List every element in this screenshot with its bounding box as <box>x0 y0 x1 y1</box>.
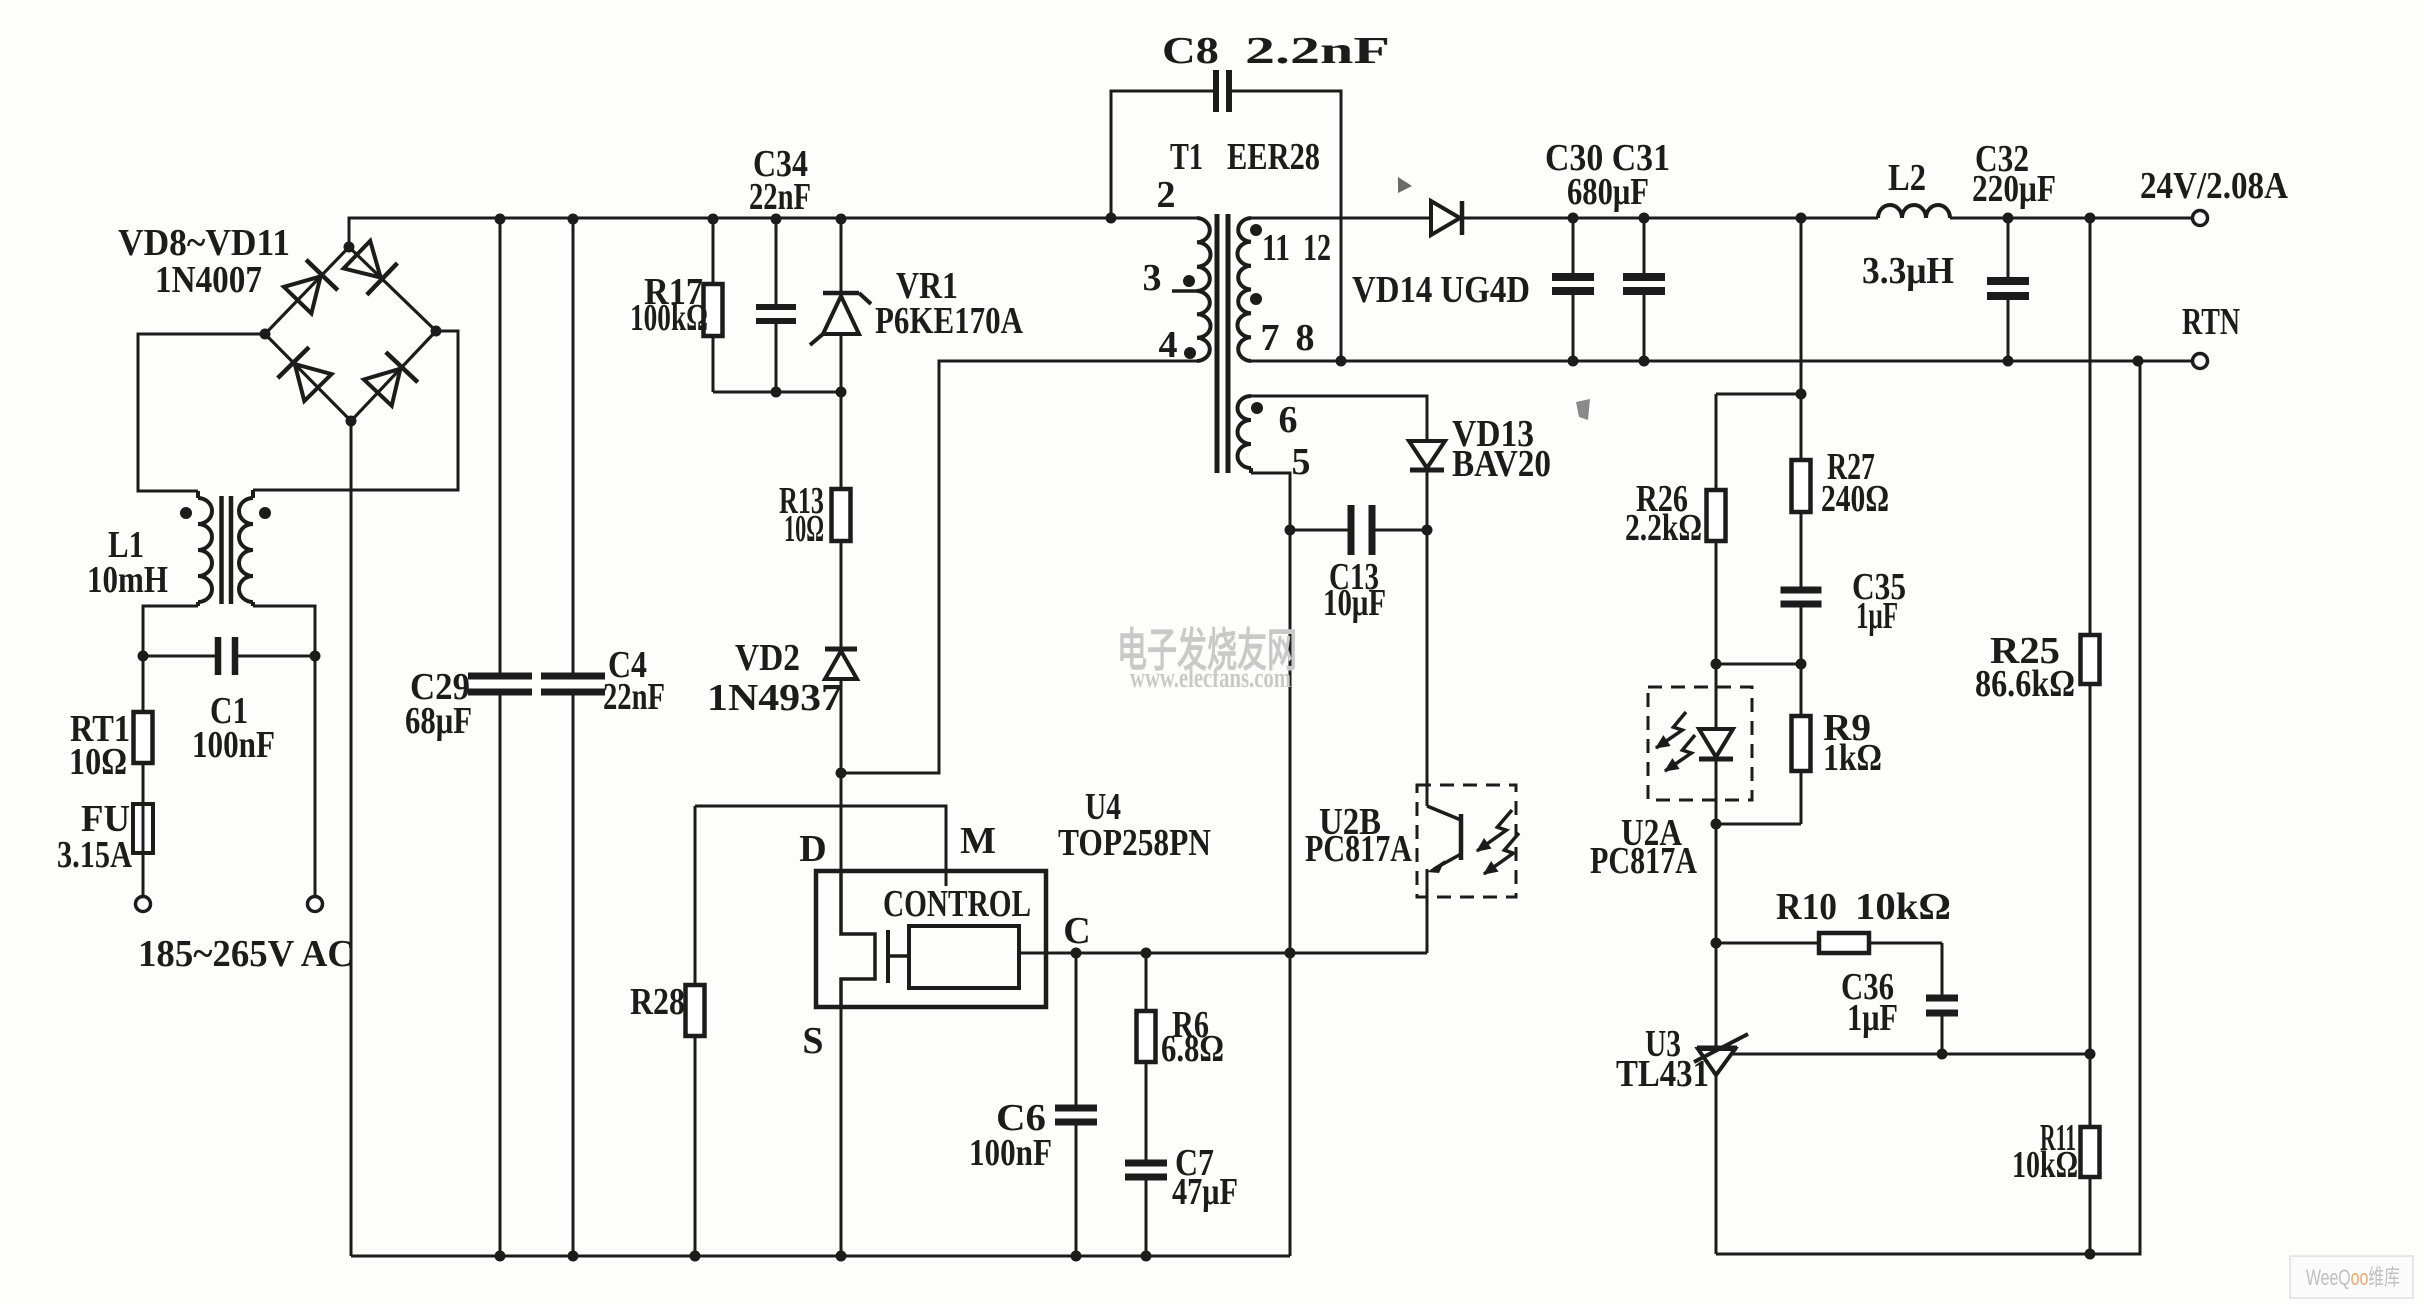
capacitor C30 680μF <box>1572 218 1575 277</box>
resistor RT1 10Ω (NTC) <box>134 712 153 763</box>
wire clamp bottom bar <box>713 391 841 394</box>
wire VR1 to R13 <box>840 392 843 489</box>
svg-text:68μF: 68μF <box>405 700 472 742</box>
wire U2B emitter to C line <box>1426 869 1429 953</box>
wire R13 to VD2 <box>840 541 843 649</box>
wire LED cathode to R10 node <box>1715 824 1718 943</box>
wire secondary rail segments <box>1251 217 1431 220</box>
wire T1 pin 4 to drain node <box>841 361 1197 773</box>
wire R26/R27 bottom link <box>1716 663 1801 666</box>
capacitor C35 1μF <box>1781 587 1822 594</box>
svg-text:185~265V AC: 185~265V AC <box>138 933 354 975</box>
svg-text:BAV20: BAV20 <box>1452 443 1551 485</box>
node R11 bottom <box>2085 1249 2096 1260</box>
node C30 bottom <box>1568 356 1579 367</box>
resistor R28 <box>686 985 705 1036</box>
wire FU to AC terminal <box>142 853 145 897</box>
svg-text:TL431: TL431 <box>1616 1053 1709 1095</box>
terminal RTN <box>2193 354 2208 369</box>
node VR1 bottom <box>836 387 847 398</box>
wire secondary ground rail <box>1716 361 2140 1254</box>
node AC terminal N <box>308 897 323 912</box>
wire RT1 to FU <box>142 763 145 804</box>
node R26/R27 top junction <box>1796 389 1807 400</box>
node bridge bottom vertex <box>346 416 357 427</box>
fuse FU 3.15A <box>133 804 153 853</box>
node R6 top <box>1141 948 1152 959</box>
svg-text:24V/2.08A: 24V/2.08A <box>2140 165 2288 207</box>
svg-text:S: S <box>802 1020 823 1062</box>
capacitor C34 22nF <box>756 304 796 310</box>
svg-text:11: 11 <box>1262 227 1290 269</box>
wire C8 branch <box>1111 91 1216 218</box>
resistor R25 86.6kΩ <box>2081 635 2100 684</box>
wire C4 column <box>572 219 575 676</box>
svg-text:680μF: 680μF <box>1567 171 1649 213</box>
wire R11 column <box>2089 1054 2092 1127</box>
optocoupler U2B PC817A (phototransistor) <box>1417 785 1516 897</box>
node C6 bottom <box>1071 1251 1082 1262</box>
svg-text:1N4937: 1N4937 <box>707 677 842 719</box>
svg-text:VD2: VD2 <box>735 637 800 679</box>
resistor R17 100kΩ <box>704 284 723 336</box>
resistor R6 6.8Ω <box>1137 1011 1156 1062</box>
node C4 bottom <box>568 1251 579 1262</box>
svg-text:3: 3 <box>1143 257 1162 299</box>
node LED top <box>1711 659 1722 670</box>
wire R26 column <box>1715 394 1718 490</box>
capacitor C4 22nF <box>541 673 605 680</box>
node bridge top vertex <box>344 242 355 253</box>
shunt regulator U3 TL431 <box>1715 943 1718 1048</box>
node RTN right junction <box>2133 356 2144 367</box>
transformer T1 primary winding (pins 2,3,4) <box>1197 218 1211 291</box>
svg-text:10Ω: 10Ω <box>69 741 127 783</box>
resistor R13 10Ω <box>832 489 851 541</box>
wire R26 top link <box>1716 393 1801 396</box>
svg-text:L2: L2 <box>1888 157 1926 199</box>
svg-text:6.8Ω: 6.8Ω <box>1161 1028 1224 1070</box>
node VR1 top <box>836 214 847 225</box>
node R28 bottom <box>690 1251 701 1262</box>
svg-text:2.2kΩ: 2.2kΩ <box>1625 507 1702 549</box>
svg-text:2: 2 <box>1157 174 1176 216</box>
capacitor C36 1μF <box>1926 995 1958 1002</box>
node C29 bottom <box>495 1251 506 1262</box>
node C4 top <box>568 214 579 225</box>
wire C34 column <box>775 219 778 307</box>
svg-text:3.3μH: 3.3μH <box>1862 250 1954 292</box>
capacitor C29 68μF <box>468 673 532 680</box>
wire bridge left AC input to L1 left winding <box>138 334 265 491</box>
wire L1 left winding to C1 left node <box>143 606 198 656</box>
svg-text:240Ω: 240Ω <box>1821 478 1889 520</box>
svg-text:RTN: RTN <box>2182 301 2240 343</box>
svg-text:EER28: EER28 <box>1227 136 1320 178</box>
svg-text:C8: C8 <box>1162 30 1219 72</box>
svg-text:1μF: 1μF <box>1856 595 1898 637</box>
svg-text:TOP258PN: TOP258PN <box>1058 822 1211 864</box>
resistor R27 240Ω <box>1792 460 1811 512</box>
svg-text:VD8~VD11: VD8~VD11 <box>118 222 290 264</box>
capacitor C8 2.2nF <box>1213 70 1219 112</box>
svg-text:10mH: 10mH <box>87 559 168 601</box>
svg-text:1μF: 1μF <box>1847 997 1898 1039</box>
node S bottom <box>836 1251 847 1262</box>
node LED cathode junction <box>1711 819 1722 830</box>
wire R28 to U4 M pin <box>695 806 946 886</box>
wire C36 column <box>1941 943 1944 998</box>
node C32 top <box>2003 213 2014 224</box>
wire U4 S pin to ground rail <box>840 1007 843 1256</box>
svg-text:PC817A: PC817A <box>1305 828 1412 870</box>
node bridge left vertex <box>260 329 271 340</box>
node C6 top <box>1071 948 1082 959</box>
capacitor C32 220μF <box>2007 218 2010 281</box>
svg-text:6: 6 <box>1279 399 1298 441</box>
watermark weeqoo <box>2290 1256 2413 1298</box>
svg-text:47μF: 47μF <box>1172 1171 1238 1213</box>
wire R9 bottom link <box>1716 823 1801 826</box>
node ref/divider junction <box>2085 1049 2096 1060</box>
svg-text:5: 5 <box>1292 441 1311 483</box>
node C36 bottom <box>1937 1049 1948 1060</box>
TVS VR1 P6KE170A <box>823 291 859 296</box>
transformer T1 secondary winding (pins 11,12 / 7,8) <box>1237 218 1251 361</box>
wire R28 column <box>694 806 697 985</box>
wire bridge output negative (bottom vertex to primary ground rail) <box>350 421 353 1256</box>
svg-text:100kΩ: 100kΩ <box>630 297 708 339</box>
svg-text:4: 4 <box>1159 324 1178 366</box>
inductor L2 3.3μH <box>1878 205 1950 218</box>
svg-text:8: 8 <box>1296 317 1315 359</box>
node C8 left junction <box>1106 213 1117 224</box>
wire VR1 column <box>840 219 843 294</box>
node R17 top <box>708 214 719 225</box>
node R9 top <box>1796 659 1807 670</box>
wire R25 column <box>2089 218 2092 635</box>
terminal 24V output <box>2193 211 2208 226</box>
svg-text:3.15A: 3.15A <box>57 834 132 876</box>
svg-text:T1: T1 <box>1170 136 1203 178</box>
node C13 right <box>1422 525 1433 536</box>
node C13 left <box>1285 525 1296 536</box>
node C34 bottom <box>771 387 782 398</box>
node R25 top <box>2085 213 2096 224</box>
svg-text:www.elecfans.com: www.elecfans.com <box>1130 663 1291 694</box>
svg-text:1N4007: 1N4007 <box>155 259 262 301</box>
capacitor C1 100nF <box>143 655 218 658</box>
node R10 junction <box>1711 938 1722 949</box>
node feedback tap <box>1796 213 1807 224</box>
svg-text:2.2nF: 2.2nF <box>1245 30 1390 72</box>
svg-text:VD14 UG4D: VD14 UG4D <box>1352 269 1530 311</box>
transformer T1 core <box>1215 214 1220 473</box>
wire R27 column <box>1800 394 1803 460</box>
svg-text:100nF: 100nF <box>192 724 275 766</box>
node drain clamp junction <box>836 768 847 779</box>
svg-text:P6KE170A: P6KE170A <box>875 300 1023 342</box>
node C30 top <box>1568 213 1579 224</box>
resistor R9 1kΩ <box>1800 664 1803 716</box>
transformer T1 aux winding (pins 6,5) <box>1238 396 1252 468</box>
svg-text:C: C <box>1063 910 1090 952</box>
wire T1 pin5 column (aux return: ground rail up to aux winding) <box>1251 473 1290 1256</box>
wire feedback tap down <box>1800 218 1803 394</box>
svg-text:86.6kΩ: 86.6kΩ <box>1975 663 2075 705</box>
svg-text:22nF: 22nF <box>749 176 811 218</box>
diode VD2 1N4937 <box>825 647 857 652</box>
node C31 top <box>1639 213 1650 224</box>
wire C1 left node down to RT1 <box>142 656 145 712</box>
artifact cursor <box>1398 177 1412 193</box>
artifact blob <box>1576 399 1590 420</box>
wire U4 C pin line <box>1019 952 1427 955</box>
capacitor C13 10μF <box>1290 529 1351 532</box>
svg-text:100nF: 100nF <box>969 1132 1052 1174</box>
svg-text:12: 12 <box>1303 227 1331 269</box>
node C32 bottom <box>2003 356 2014 367</box>
node emitter junction <box>1285 948 1296 959</box>
svg-text:220μF: 220μF <box>1972 168 2056 210</box>
svg-text:10Ω: 10Ω <box>784 508 824 550</box>
wire aux winding to VD13 <box>1251 396 1427 441</box>
svg-text:WeeQoo维库: WeeQoo维库 <box>2306 1265 2400 1290</box>
resistor R10 10kΩ <box>1716 942 1819 945</box>
node bridge right vertex <box>431 326 442 337</box>
node C31 bottom <box>1639 356 1650 367</box>
capacitor C7 47μF <box>1125 1160 1167 1167</box>
svg-text:22nF: 22nF <box>603 676 665 718</box>
diode VD13 BAV20 <box>1409 441 1445 468</box>
svg-text:7: 7 <box>1261 317 1280 359</box>
svg-text:1kΩ: 1kΩ <box>1823 737 1882 779</box>
wire R6 column <box>1145 953 1148 1011</box>
diode VD14 UG4D <box>1431 201 1460 235</box>
svg-text:D: D <box>799 828 826 870</box>
wire RTN rail <box>1251 360 2192 363</box>
wire C1 right node to AC terminal <box>314 656 317 897</box>
svg-text:R10: R10 <box>1776 886 1837 928</box>
wire U2B collector <box>1426 530 1429 806</box>
wire bridge right AC input to L1 right winding <box>253 331 458 490</box>
wire R17 column <box>712 219 715 284</box>
svg-text:M: M <box>960 820 996 862</box>
optocoupler U2A PC817A (LED) <box>1648 687 1752 800</box>
wire primary ground rail (bottom) <box>351 1255 1290 1258</box>
capacitor C6 100nF <box>1055 1105 1097 1112</box>
bridge rectifier VD8~VD11 1N4007 (diamond) <box>265 247 436 421</box>
svg-text:10μF: 10μF <box>1323 582 1386 624</box>
wire drain node to U4 D pin <box>840 773 843 871</box>
node C8 right junction <box>1336 356 1347 367</box>
resistor R26 2.2kΩ <box>1707 490 1726 541</box>
capacitor C31 680μF <box>1643 218 1646 277</box>
node C1 left <box>138 651 149 662</box>
svg-text:10kΩ: 10kΩ <box>1855 886 1951 928</box>
wire VD2 to drain node <box>840 679 843 773</box>
wire L1 right winding to C1 right node <box>253 606 315 656</box>
node C7 bottom <box>1141 1251 1152 1262</box>
svg-text:10kΩ: 10kΩ <box>2012 1144 2078 1186</box>
node C1 right <box>310 651 321 662</box>
svg-text:PC817A: PC817A <box>1590 840 1697 882</box>
svg-text:CONTROL: CONTROL <box>883 883 1031 925</box>
node C29 top <box>495 214 506 225</box>
inductor L1 10mH (common-mode choke) <box>198 498 212 602</box>
wire C6 column <box>1075 953 1078 1108</box>
node C34 top <box>771 214 782 225</box>
svg-text:R28: R28 <box>630 981 685 1023</box>
node AC terminal L <box>136 897 151 912</box>
wire TL431 ref line <box>1731 1053 2090 1056</box>
resistor R11 10kΩ <box>2081 1127 2100 1177</box>
wire C29 column <box>499 219 502 676</box>
wire VD13 to C13/collector <box>1426 470 1429 530</box>
IC U4 TOP258PN (CONTROL block) <box>816 871 1046 1007</box>
wire primary DC bus (top rail, bridge + output to T1 pin 2) <box>349 218 1197 247</box>
